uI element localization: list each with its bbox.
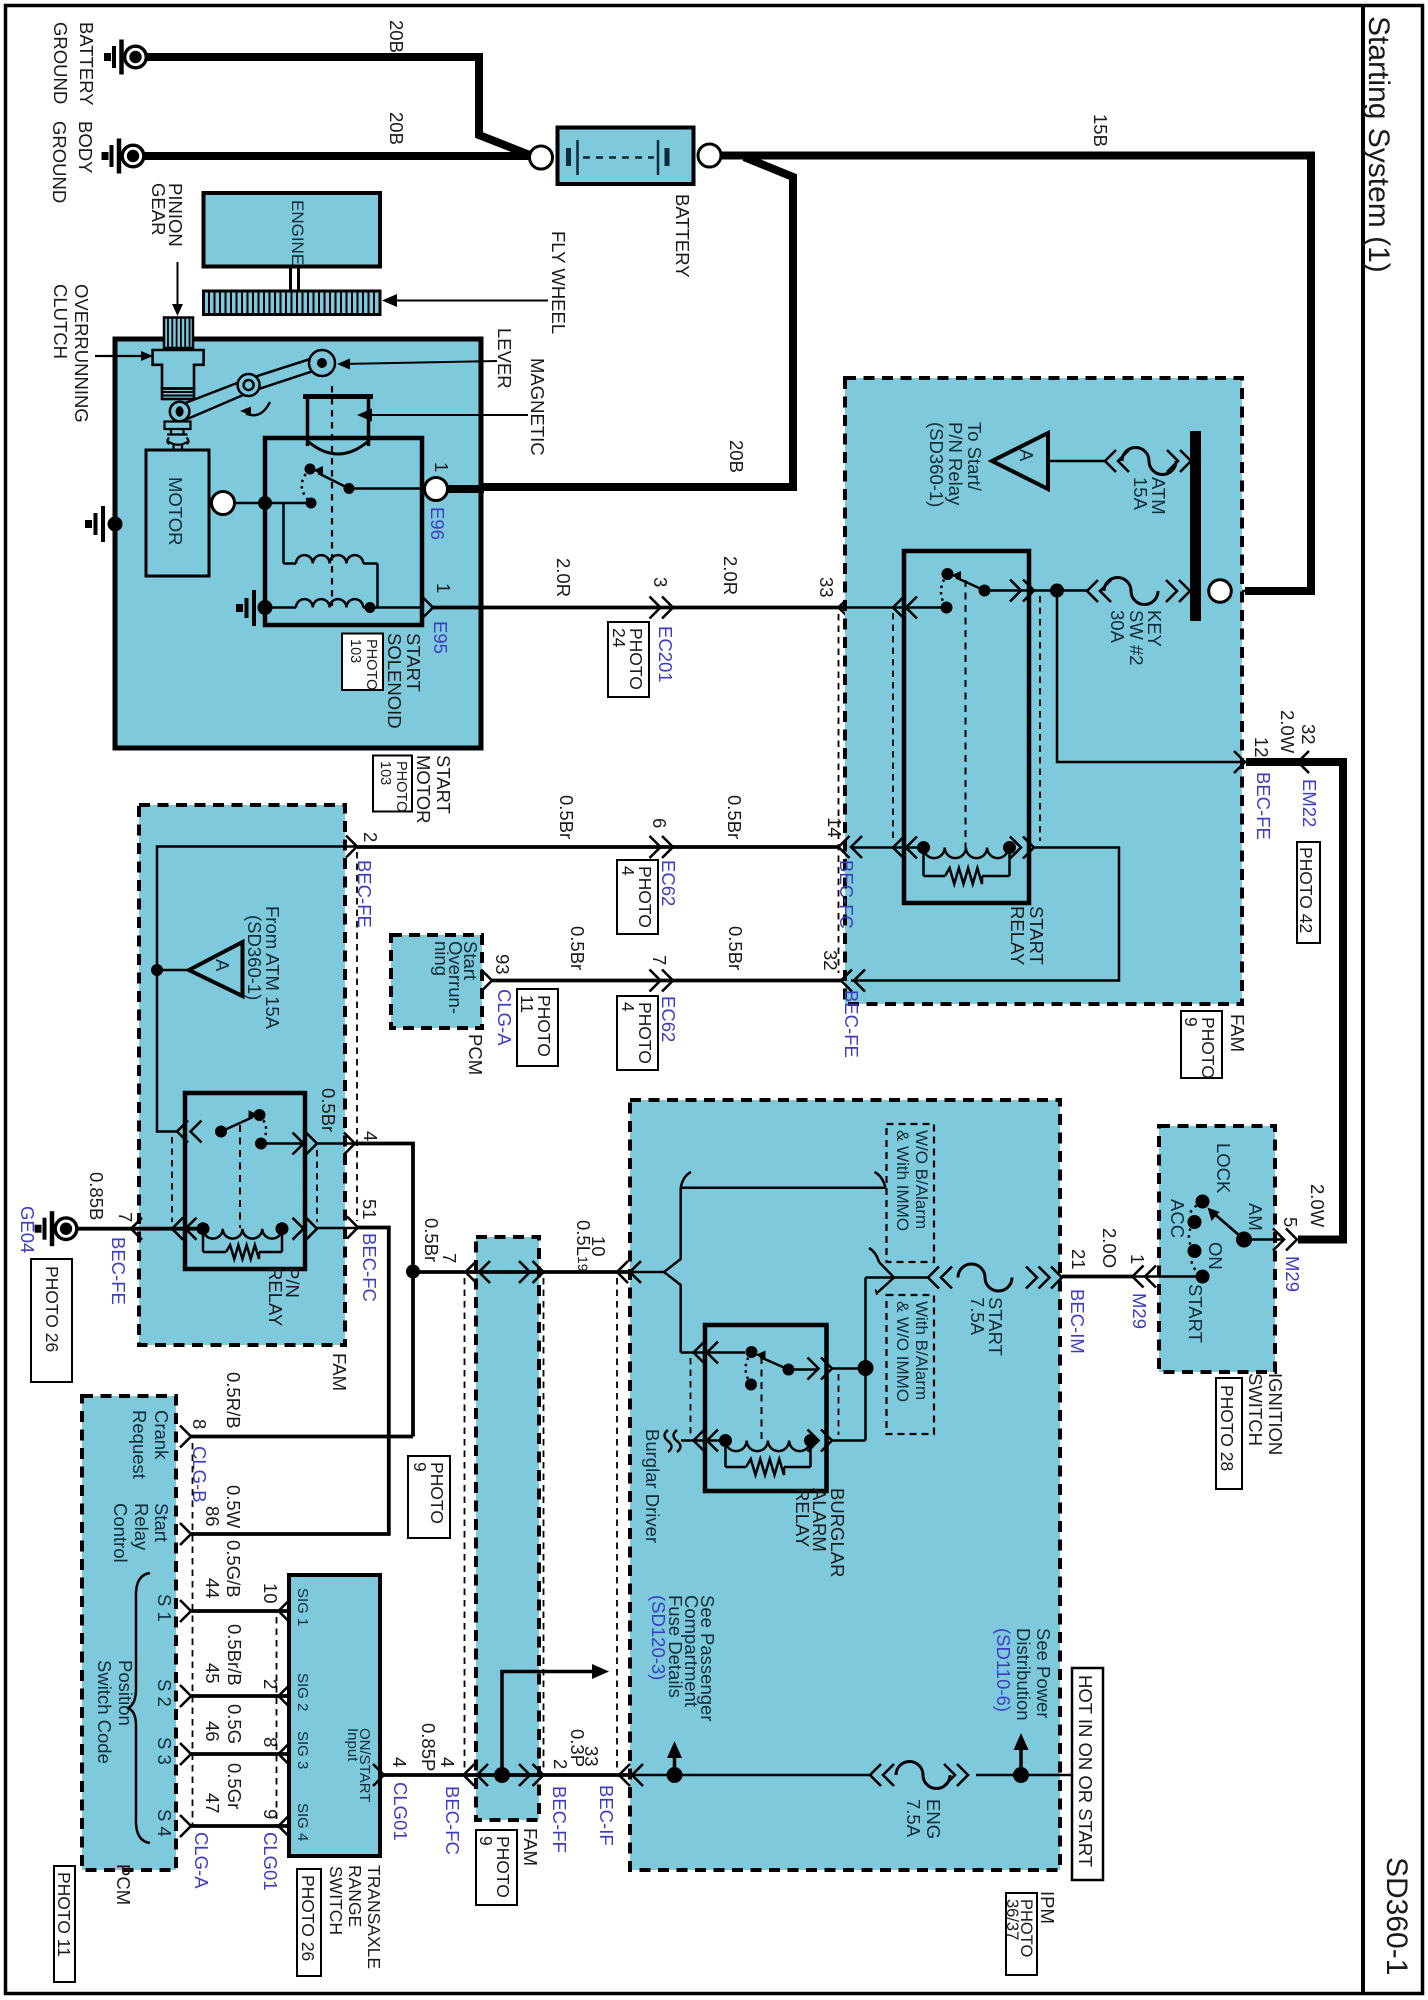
svg-text:4: 4 — [618, 1002, 638, 1012]
connector CLG01 4 chevron — [373, 1764, 384, 1786]
burglar relay switch wire in — [681, 1351, 745, 1354]
wire 2.0W EM22 to ignition switch — [1246, 762, 1343, 1240]
svg-text:Start: Start — [151, 1503, 172, 1542]
wire to KEY SW fuse — [1057, 589, 1087, 592]
P/N relay switch contacts — [254, 1109, 266, 1121]
solenoid switch wire — [267, 502, 311, 505]
triangle A (to start/PN relay) — [992, 433, 1048, 489]
motor box — [146, 450, 209, 576]
P/N relay internal dashed link — [239, 1125, 241, 1228]
svg-text:FAM: FAM — [329, 1353, 350, 1391]
svg-text:FLY WHEEL: FLY WHEEL — [548, 231, 569, 334]
svg-text:PHOTO 28: PHOTO 28 — [1217, 1385, 1237, 1471]
svg-text:& With IMMO: & With IMMO — [893, 1130, 912, 1231]
photo box PHOTO 9 (narrow FAM) — [476, 1830, 517, 1905]
svg-text:RELAY: RELAY — [792, 1488, 813, 1547]
svg-text:Position: Position — [115, 1660, 136, 1726]
connector chevrons S4 — [180, 1815, 191, 1837]
svg-text:GE04: GE04 — [17, 1206, 38, 1253]
svg-text:103: 103 — [347, 639, 363, 663]
photo box PHOTO 26 (transaxle) — [297, 1869, 321, 1976]
svg-text:EM22: EM22 — [1299, 779, 1320, 827]
connector BEC-FC 14 chevrons — [839, 836, 850, 858]
branch vertical — [679, 1188, 682, 1260]
svg-text:& W/O IMMO: & W/O IMMO — [893, 1301, 912, 1402]
P/N relay coil — [197, 1222, 210, 1235]
svg-text:7.5A: 7.5A — [903, 1799, 924, 1838]
photo box PHOTO 103 (solenoid) — [342, 634, 383, 691]
svg-text:0.85B: 0.85B — [86, 1172, 107, 1220]
motor terminal circle — [234, 502, 267, 505]
svg-text:1: 1 — [1127, 1254, 1148, 1264]
svg-text:(SD360-1): (SD360-1) — [926, 422, 947, 507]
solenoid switch contacts — [305, 464, 316, 475]
svg-text:S 1: S 1 — [154, 1594, 175, 1622]
wire 2.0R E95 to start relay — [433, 606, 947, 610]
burglar relay internal dashed link — [761, 1357, 763, 1440]
svg-text:Control: Control — [110, 1503, 131, 1563]
svg-text:See Power: See Power — [1033, 1628, 1054, 1719]
svg-text:EC201: EC201 — [655, 626, 676, 683]
HOT IN ON OR START label box — [1072, 1668, 1103, 1880]
wire 20B battery ground to battery — [147, 57, 537, 158]
PCM start overrunning box — [391, 935, 482, 1028]
wire 0.5R/B PCM 8 to junction — [191, 1435, 413, 1439]
svg-text:P/N Relay: P/N Relay — [945, 422, 966, 506]
svg-text:FAM: FAM — [520, 1828, 541, 1866]
svg-text:ENGINE: ENGINE — [288, 200, 307, 265]
burglar relay coil wire in — [681, 1439, 726, 1442]
svg-text:S 3: S 3 — [154, 1737, 175, 1765]
P/N relay box — [185, 1093, 305, 1269]
bypass top rail — [681, 1186, 886, 1189]
photo box PHOTO 28 — [1216, 1378, 1242, 1489]
svg-text:E95: E95 — [430, 621, 451, 654]
solenoid switch lever — [344, 483, 355, 494]
wire 20B battery to start motor E96 — [448, 157, 793, 487]
connector M29 1 chevrons — [1133, 1266, 1144, 1288]
connector BEC-FC 51 chevron — [347, 1217, 358, 1239]
svg-text:10: 10 — [260, 1583, 281, 1604]
connector BEC-FC 4 chevron — [344, 1133, 355, 1155]
flywheel — [204, 291, 381, 315]
svg-text:0.5R/B: 0.5R/B — [223, 1372, 244, 1429]
FAM fuse/relay module box — [845, 378, 1242, 1004]
burglar relay switch output — [789, 1368, 819, 1371]
transaxle range switch box — [289, 1575, 380, 1856]
burglar relay switch contacts — [746, 1346, 758, 1358]
wire 0.5Br P/N relay 2 to BEC-FC 14 — [357, 845, 839, 849]
svg-text:Distribution: Distribution — [1013, 1628, 1034, 1721]
junction node (triangle tap) — [151, 964, 163, 976]
P/N relay switch output wire — [261, 1142, 304, 1145]
svg-text:4: 4 — [389, 1757, 410, 1767]
svg-text:24: 24 — [609, 628, 629, 648]
svg-text:SWITCH: SWITCH — [1245, 1373, 1266, 1446]
svg-text:BEC-FC: BEC-FC — [442, 1786, 463, 1855]
wire 0.85P transaxle to burglar box — [384, 1773, 633, 1777]
lever pivot circles — [170, 402, 190, 422]
svg-text:15A: 15A — [1130, 477, 1151, 511]
motor ground — [108, 517, 123, 532]
svg-text:RELAY: RELAY — [1007, 906, 1028, 965]
svg-text:ON: ON — [1205, 1242, 1226, 1270]
wire coil to FAM edge pin 51 — [317, 1227, 358, 1230]
svg-text:2.0W: 2.0W — [1277, 710, 1298, 754]
svg-text:BEC-IF: BEC-IF — [596, 1785, 617, 1846]
svg-text:0.5G: 0.5G — [224, 1704, 245, 1744]
svg-text:W/O B/Alarm: W/O B/Alarm — [912, 1130, 931, 1229]
svg-text:BEC-FF: BEC-FF — [549, 1786, 570, 1853]
burglar relay coil — [719, 1434, 732, 1447]
connector BEC-FC 33 chevrons — [839, 597, 850, 619]
svg-text:Request: Request — [129, 1410, 150, 1479]
svg-text:PCM: PCM — [113, 1864, 134, 1905]
wire coil loop to BEC-FE 32 — [851, 848, 1119, 981]
burglar driver break symbol — [665, 1430, 672, 1452]
svg-text:HOT IN ON OR START: HOT IN ON OR START — [1075, 1675, 1096, 1867]
wire S4 row — [191, 1824, 289, 1828]
svg-text:45: 45 — [202, 1663, 223, 1684]
P/N connector dashed columns — [171, 1137, 173, 1222]
P/N relay switch travel arc — [260, 1115, 267, 1144]
svg-text:0.5Br: 0.5Br — [724, 795, 745, 839]
svg-text:BATTERY: BATTERY — [76, 22, 97, 106]
svg-text:47: 47 — [202, 1793, 223, 1814]
svg-text:CLG01: CLG01 — [390, 1782, 411, 1841]
relay connector dashed columns — [892, 613, 894, 841]
svg-text:2.0O: 2.0O — [1099, 1228, 1120, 1268]
wire coil out to junction — [832, 1439, 866, 1442]
wire relay output vertical — [864, 1278, 867, 1369]
ignition switch lever — [1214, 1214, 1244, 1240]
svg-text:M29: M29 — [1129, 1293, 1150, 1329]
solenoid pull-in winding — [282, 503, 285, 564]
battery plates — [566, 148, 571, 166]
svg-text:START: START — [403, 633, 424, 692]
P/N relay coil chevrons right — [293, 1218, 304, 1240]
wire 2.0R inside FAM box — [845, 606, 947, 609]
lever rotation arrow — [246, 402, 270, 415]
arrow to see passenger compartment — [673, 1756, 677, 1775]
svg-text:36/37: 36/37 — [1003, 1899, 1021, 1940]
arrow wire to passenger fuse details — [502, 1672, 594, 1776]
plunger dashed link — [331, 386, 333, 606]
svg-text:START: START — [1026, 906, 1047, 965]
svg-text:0.5Br: 0.5Br — [725, 926, 746, 970]
svg-text:SWITCH: SWITCH — [326, 1866, 346, 1935]
wire from pin2 to triangle and P/N relay — [157, 847, 355, 1132]
svg-text:12: 12 — [1251, 737, 1272, 758]
ignition switch AM common dot — [1236, 1232, 1252, 1248]
junction node (SD120-3 tap) — [667, 1767, 683, 1783]
svg-text:START: START — [433, 755, 454, 814]
connector BEC-FE 7 chevrons — [131, 1218, 142, 1240]
svg-text:BEC-IM: BEC-IM — [1067, 1289, 1088, 1354]
svg-text:GROUND: GROUND — [50, 22, 71, 104]
wire S2 row — [191, 1694, 289, 1698]
svg-text:S 4: S 4 — [154, 1809, 175, 1837]
battery terminal circle left — [530, 146, 553, 169]
connector E96 circle — [425, 478, 448, 501]
wire 0.5Br pin4 down to junction — [355, 1144, 413, 1437]
svg-text:46: 46 — [202, 1721, 223, 1742]
svg-text:Input: Input — [344, 1728, 361, 1762]
svg-text:Starting System (1): Starting System (1) — [1362, 16, 1395, 273]
ignition switch position dots — [1196, 1195, 1210, 1209]
wire 20B body ground to battery — [144, 152, 531, 160]
P/N relay coil resistor — [202, 1229, 205, 1252]
wire 0.5L inside burglar box — [626, 1271, 666, 1274]
wire triangle to ATM fuse — [1048, 460, 1105, 463]
svg-text:OVERRUNNING: OVERRUNNING — [71, 284, 92, 423]
svg-text:2.0W: 2.0W — [1307, 1184, 1328, 1228]
burglar connector dashed columns — [690, 1358, 692, 1435]
shift lever arm — [184, 357, 318, 404]
burglar relay switch travel arc — [746, 1352, 752, 1385]
svg-text:44: 44 — [202, 1578, 223, 1599]
start relay coil chevrons left — [893, 837, 904, 859]
svg-text:0.5W: 0.5W — [223, 1485, 244, 1529]
photo box PHOTO 9 (FAM) — [1181, 1011, 1222, 1078]
wire 0.5Br PCM 93 to BEC-FE 32 — [492, 979, 841, 983]
svg-text:19: 19 — [575, 1256, 591, 1272]
svg-text:5: 5 — [1280, 1217, 1301, 1227]
svg-text:With B/Alarm: With B/Alarm — [912, 1301, 931, 1400]
svg-text:BODY: BODY — [75, 121, 96, 173]
svg-text:0.5Br: 0.5Br — [421, 1218, 442, 1262]
solenoid switch travel arc — [302, 469, 311, 503]
connector BEC-FE 32 chevrons — [841, 970, 852, 992]
engine box — [204, 193, 381, 267]
burglar alarm relay box — [705, 1325, 827, 1491]
fuse box busbar — [1190, 431, 1201, 621]
photo box PHOTO 9 (mid) — [408, 1456, 450, 1538]
svg-text:8: 8 — [189, 1419, 210, 1429]
svg-text:11: 11 — [517, 995, 537, 1013]
fuse ATM 15A — [1105, 450, 1116, 472]
svg-text:Switch Code: Switch Code — [94, 1660, 115, 1764]
fuse START 7.5A — [928, 1267, 939, 1289]
connector chevrons 10 at burglar box — [617, 1261, 628, 1283]
svg-text:0.5Br: 0.5Br — [318, 1088, 339, 1132]
svg-text:ENG: ENG — [923, 1799, 944, 1839]
overrunning clutch pointer arrow — [95, 355, 142, 357]
svg-text:0.5G/B: 0.5G/B — [223, 1540, 244, 1598]
flywheel pointer arrow — [394, 300, 548, 302]
svg-text:20B: 20B — [386, 112, 407, 145]
start motor box — [115, 339, 481, 748]
svg-text:0.5Br/B: 0.5Br/B — [224, 1624, 245, 1686]
start relay switch travel arc — [941, 574, 948, 608]
svg-text:SOLENOID: SOLENOID — [384, 633, 405, 729]
PCM connector dashed columns — [192, 1443, 194, 1827]
svg-text:PHOTO 42: PHOTO 42 — [1296, 847, 1316, 933]
svg-text:15B: 15B — [1090, 114, 1111, 147]
busbar terminal circle — [1209, 580, 1232, 603]
svg-text:GROUND: GROUND — [49, 121, 70, 203]
magnetic switch pointer arrow — [367, 414, 528, 416]
magnetic switch plunger cap — [303, 394, 373, 399]
svg-text:103: 103 — [377, 761, 393, 785]
svg-text:20B: 20B — [726, 440, 747, 473]
junction node (burglar out) — [858, 1360, 874, 1376]
svg-text:(SD110-6): (SD110-6) — [993, 1628, 1014, 1712]
svg-text:10: 10 — [588, 1236, 609, 1257]
pinion gear (hatched) — [164, 318, 193, 349]
fuse ENG 7.5A — [870, 1764, 881, 1786]
svg-text:SW #2: SW #2 — [1126, 610, 1147, 666]
svg-text:MOTOR: MOTOR — [165, 477, 186, 546]
connector EC62 6 chevrons — [650, 836, 661, 858]
svg-text:SIG 2: SIG 2 — [294, 1673, 311, 1711]
narrow FAM box — [476, 1237, 539, 1820]
wire to FAM edge pin 4 — [317, 1142, 355, 1145]
svg-text:0.5Gr: 0.5Gr — [224, 1763, 245, 1809]
svg-text:BEC-FE: BEC-FE — [108, 1237, 129, 1305]
svg-text:7: 7 — [649, 955, 670, 965]
wire key sw to EM22 row — [1057, 591, 1243, 763]
svg-text:S 2: S 2 — [154, 1679, 175, 1707]
svg-text:GEAR: GEAR — [148, 183, 169, 235]
connector chevrons S1 — [180, 1600, 191, 1622]
title separator rule — [1361, 6, 1365, 1994]
svg-text:(SD360-1): (SD360-1) — [244, 915, 265, 1000]
P/N relay ground wire 0.85B — [77, 1227, 203, 1231]
option label box W/O B/Alarm & With IMMO — [887, 1124, 935, 1262]
svg-text:CLG-A: CLG-A — [191, 1832, 212, 1889]
connector BEC-IF chevrons — [619, 1764, 630, 1786]
svg-text:PCM: PCM — [465, 1034, 486, 1075]
svg-text:EC62: EC62 — [658, 996, 679, 1042]
svg-text:21: 21 — [1068, 1249, 1089, 1270]
wire row 1775 inside burglar box — [633, 1774, 869, 1777]
junction node (SD110-6 tap) — [1013, 1767, 1029, 1783]
svg-text:BEC-FE: BEC-FE — [354, 860, 375, 928]
svg-text:To Start/: To Start/ — [964, 422, 985, 492]
svg-text:BATTERY: BATTERY — [672, 194, 693, 278]
svg-text:PHOTO 26: PHOTO 26 — [298, 1875, 318, 1961]
solenoid hold-in winding — [265, 606, 296, 609]
svg-text:2: 2 — [360, 832, 381, 842]
svg-text:BEC-FE: BEC-FE — [1253, 772, 1274, 840]
svg-text:20B: 20B — [386, 20, 407, 53]
P/N relay switch common — [215, 1126, 227, 1138]
start relay switch upper contact — [942, 568, 954, 580]
connector chevrons right of FAM (row 1775) — [519, 1764, 530, 1786]
photo box PHOTO 11 (PCM) — [54, 1866, 75, 1982]
svg-text:PHOTO: PHOTO — [363, 639, 379, 690]
battery terminal circle right — [698, 144, 721, 167]
PCM module box — [82, 1396, 176, 1870]
svg-text:14: 14 — [824, 817, 845, 838]
connector 86 chevron — [180, 1523, 191, 1545]
pinion gear pointer arrow — [177, 262, 179, 307]
svg-text:TRANSAXLE: TRANSAXLE — [364, 1865, 384, 1969]
connector chevrons S3 — [180, 1743, 191, 1765]
start relay coil — [917, 841, 930, 854]
svg-text:30A: 30A — [1107, 610, 1128, 644]
connector BEC-FE 2 chevron — [346, 836, 357, 858]
svg-text:LOCK: LOCK — [1213, 1143, 1234, 1194]
svg-text:IPM: IPM — [1037, 1891, 1058, 1924]
P/N relay switch lever — [221, 1117, 253, 1132]
wire 0.5L junction row to burglar box — [413, 1270, 666, 1274]
svg-text:2: 2 — [260, 1679, 281, 1689]
svg-text:0.85P: 0.85P — [418, 1723, 439, 1771]
svg-text:9: 9 — [1181, 1017, 1201, 1027]
bypass rejoin diagonal — [879, 1262, 894, 1278]
svg-text:9: 9 — [260, 1809, 281, 1819]
wire ENG fuse to HOT box — [976, 1774, 1073, 1777]
svg-text:4: 4 — [618, 866, 638, 876]
svg-text:4: 4 — [360, 1131, 381, 1141]
svg-text:PHOTO 11: PHOTO 11 — [54, 1872, 74, 1957]
connector BEC-FE 32/EM22 chevron — [1298, 751, 1309, 773]
photo box PHOTO 36/37 — [1006, 1893, 1037, 1975]
svg-text:CLG-A: CLG-A — [494, 989, 515, 1046]
svg-text:2.0R: 2.0R — [553, 558, 574, 597]
svg-text:PHOTO 26: PHOTO 26 — [42, 1266, 62, 1352]
solenoid ground — [258, 600, 273, 615]
svg-text:A: A — [1016, 449, 1037, 462]
junction node (fam mid) — [494, 1767, 510, 1783]
connector dashed link (BEC-FC column) — [838, 614, 840, 973]
ignition switch box — [1159, 1126, 1275, 1372]
wire S3 row — [191, 1752, 289, 1756]
svg-text:86: 86 — [202, 1506, 223, 1527]
junction node (key sw feed) — [1050, 584, 1064, 598]
FAM P/N relay module box — [139, 805, 345, 1345]
fuse KEY SW #2 30A — [1087, 580, 1098, 602]
svg-text:LEVER: LEVER — [494, 328, 515, 389]
svg-text:SIG 1: SIG 1 — [294, 1588, 311, 1626]
start solenoid box — [265, 438, 422, 625]
wire 0.5W pin 51 to PCM 86 — [191, 1228, 389, 1535]
svg-text:(SD120-3): (SD120-3) — [648, 1595, 669, 1680]
arrow to see power distribution — [1019, 1749, 1023, 1775]
start relay coil row wire — [851, 846, 924, 849]
ignition switch travel arc — [1189, 1202, 1203, 1277]
P/N relay switch chevrons left — [177, 1121, 188, 1143]
junction node (crank/start split) — [406, 1265, 420, 1279]
overrunning clutch housing — [153, 350, 204, 389]
svg-text:FAM: FAM — [1227, 1014, 1248, 1052]
connector EC62 7 chevrons — [650, 970, 661, 992]
svg-text:2.0R: 2.0R — [720, 556, 741, 595]
start relay switch common contact — [941, 602, 953, 614]
wire start fuse feed — [866, 1276, 929, 1279]
photo box PHOTO 26 (GE04) — [31, 1259, 72, 1382]
svg-text:32: 32 — [820, 950, 841, 971]
solenoid switch output wire to E96 — [349, 487, 426, 490]
svg-text:BEC-FC: BEC-FC — [359, 1233, 380, 1302]
wire 15B battery to fuse box busbar — [721, 156, 1311, 592]
svg-text:4: 4 — [437, 1757, 458, 1767]
wire 20B inside start motor box to E96 — [446, 485, 484, 493]
svg-text:9: 9 — [476, 1836, 496, 1846]
svg-text:0.5Br: 0.5Br — [556, 795, 577, 839]
wire S1 row — [191, 1609, 289, 1613]
start relay coil resistor — [922, 848, 925, 877]
clutch fork bracket — [165, 422, 191, 430]
relay path diagonal — [877, 1278, 894, 1294]
start relay coil chevrons right — [1010, 837, 1021, 859]
connector CLG-A 93 chevron — [481, 970, 492, 992]
svg-text:RELAY: RELAY — [265, 1267, 286, 1326]
svg-text:1: 1 — [433, 583, 454, 593]
svg-text:51: 51 — [359, 1199, 380, 1220]
